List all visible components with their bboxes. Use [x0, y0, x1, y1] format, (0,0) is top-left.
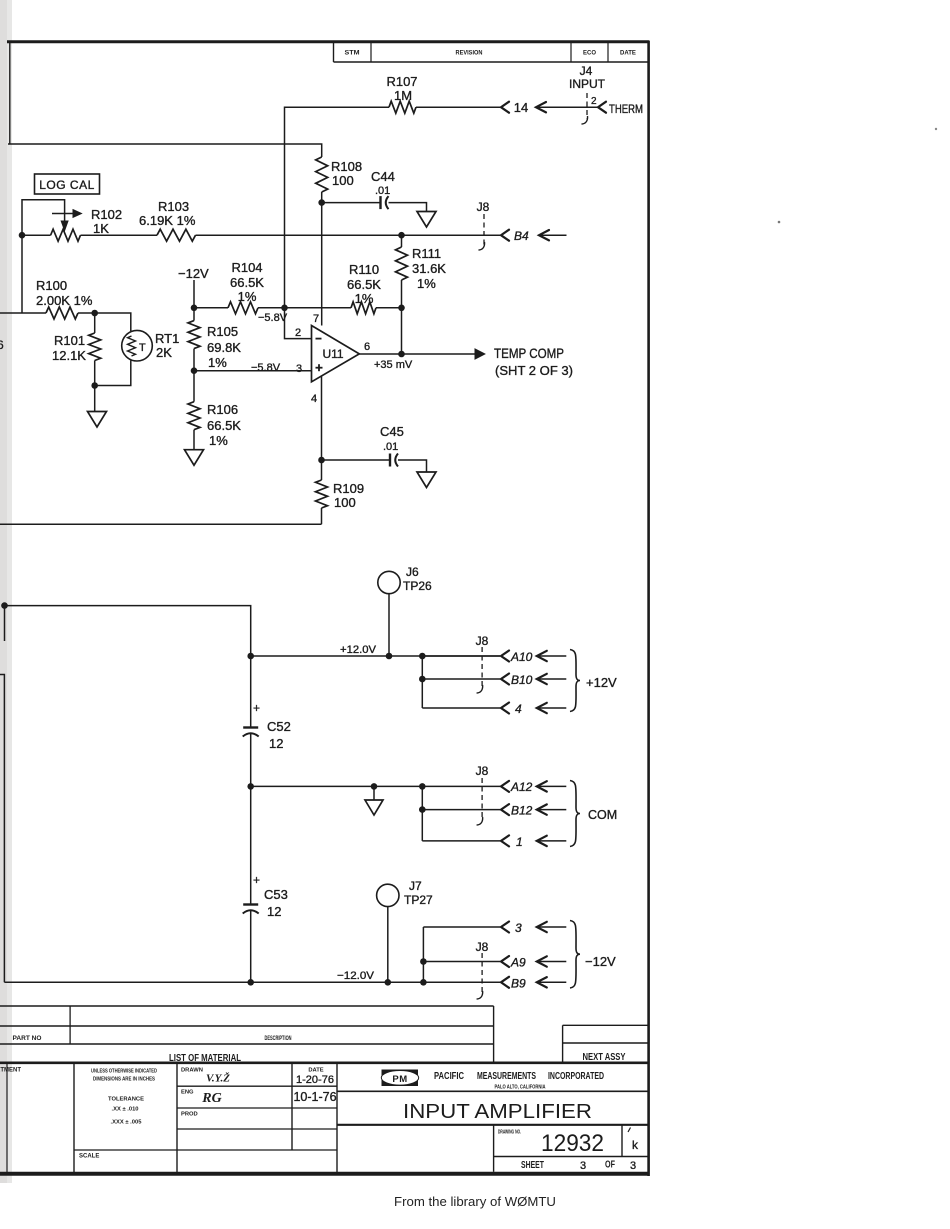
wire node to pin 2	[285, 308, 312, 339]
ground COM	[365, 800, 383, 815]
wire feedback top	[285, 107, 390, 308]
arrow into 14	[536, 106, 598, 108]
node R101 bottom	[91, 382, 98, 389]
wire -12 group vertical	[422, 927, 424, 982]
svg-text:6: 6	[0, 338, 4, 352]
svg-text:R102: R102	[91, 207, 122, 222]
minus sign pin2	[316, 338, 322, 340]
node R108/C44	[318, 199, 325, 206]
svg-text:R105: R105	[207, 324, 238, 339]
svg-text:k: k	[632, 1138, 639, 1152]
pin B10 row	[422, 678, 500, 680]
svg-text:REVISION: REVISION	[456, 51, 483, 57]
ground below R106	[185, 450, 204, 466]
svg-text:TEMP COMP: TEMP COMP	[494, 345, 564, 361]
svg-text:1%: 1%	[208, 355, 227, 370]
svg-text:J8: J8	[477, 200, 490, 214]
node C52 top	[247, 653, 254, 660]
svg-text:(SHT 2 OF 3): (SHT 2 OF 3)	[495, 363, 573, 378]
pin A10 row	[422, 655, 500, 657]
resistor R111	[398, 232, 405, 239]
svg-text:4: 4	[515, 702, 522, 716]
wire R104 to node	[258, 307, 285, 309]
wire C44 to ground	[389, 203, 427, 212]
pin B9 row	[501, 977, 509, 988]
node output	[398, 351, 405, 358]
hook B4	[479, 242, 485, 250]
wire B4 line	[196, 234, 501, 236]
wire R110 to node	[376, 307, 402, 309]
wire bottom rail	[0, 523, 322, 525]
dust specks	[778, 221, 781, 224]
svg-text:INPUT AMPLIFIER: INPUT AMPLIFIER	[403, 1101, 592, 1123]
svg-text:1K: 1K	[93, 221, 109, 236]
wire R110 left	[285, 307, 352, 309]
svg-text:1%: 1%	[209, 433, 228, 448]
resistor R103	[81, 234, 158, 236]
connector J8 dashed line B4	[483, 214, 485, 245]
svg-text:31.6K: 31.6K	[412, 261, 446, 276]
svg-text:7: 7	[313, 313, 319, 325]
svg-text:+: +	[253, 873, 260, 887]
svg-text:.XXX ± .005: .XXX ± .005	[111, 1120, 143, 1126]
svg-text:J8: J8	[476, 940, 489, 954]
svg-text:LOG CAL: LOG CAL	[39, 178, 95, 192]
svg-text:1M: 1M	[394, 88, 412, 103]
svg-text:PROD: PROD	[181, 1112, 198, 1118]
node feedback/pin2	[281, 305, 288, 312]
capacitor C53	[250, 786, 252, 904]
pin A9 row	[423, 961, 500, 963]
svg-text:2K: 2K	[156, 345, 172, 360]
resistor R104	[228, 302, 258, 314]
svg-text:4: 4	[311, 393, 317, 405]
svg-text:−5.8V: −5.8V	[251, 362, 281, 374]
svg-text:J8: J8	[476, 634, 489, 648]
wire node to C44	[322, 202, 380, 204]
svg-text:1-20-76: 1-20-76	[296, 1074, 334, 1086]
pin B4 chevron	[501, 230, 509, 241]
wire left edge stub	[4, 606, 6, 641]
adjust arrow	[52, 213, 74, 215]
revision strip box	[334, 61, 649, 63]
svg-text:1: 1	[516, 835, 523, 849]
wire COM group vertical	[421, 786, 423, 841]
connector J8 dashed -12V group	[481, 953, 483, 994]
capacitor C52	[250, 656, 252, 728]
svg-text:R107: R107	[386, 74, 417, 89]
svg-text:+: +	[253, 701, 260, 715]
resistor R100	[46, 307, 78, 319]
svg-text:C45: C45	[380, 424, 404, 439]
svg-text:A10: A10	[510, 650, 533, 664]
node A10	[419, 653, 426, 660]
pin 3 row	[423, 926, 500, 928]
svg-text:100: 100	[332, 173, 354, 188]
title block frame	[0, 1062, 649, 1065]
wire RT1 bottom	[95, 361, 131, 386]
svg-text:14: 14	[514, 100, 528, 115]
svg-text:J7: J7	[409, 879, 422, 893]
sheet top border	[7, 40, 650, 43]
svg-text:ENG: ENG	[181, 1090, 194, 1096]
wire LOG CAL to wiper	[22, 200, 65, 235]
svg-text:12.1K: 12.1K	[52, 348, 86, 363]
thermistor RT1	[122, 330, 153, 361]
svg-text:+12.0V: +12.0V	[340, 644, 377, 656]
node J7	[385, 979, 392, 986]
svg-text:−12.0V: −12.0V	[337, 970, 375, 982]
connector J8 dashed COM group	[481, 778, 483, 820]
node R105/R106/pin3	[191, 367, 198, 374]
testpoint J7 TP27	[377, 884, 399, 906]
svg-text:6: 6	[364, 341, 370, 353]
svg-text:−12V: −12V	[178, 266, 209, 281]
svg-text:.01: .01	[375, 185, 390, 197]
svg-text:DRAWING NO.: DRAWING NO.	[498, 1130, 521, 1136]
svg-text:RT1: RT1	[155, 331, 179, 346]
wire COM line	[251, 785, 500, 787]
wire +12 feed	[5, 606, 251, 656]
potentiometer R102	[51, 229, 81, 241]
node -12V/R104/R105	[191, 305, 198, 312]
svg-text:T: T	[139, 342, 146, 354]
wire -12.0V line	[4, 981, 500, 983]
svg-text:3: 3	[580, 1160, 586, 1172]
node B9	[420, 979, 427, 986]
svg-text:B9: B9	[511, 976, 526, 990]
wire node to RT1	[95, 313, 131, 331]
ground at C45	[417, 472, 436, 488]
svg-text:TP27: TP27	[404, 893, 433, 907]
svg-text:R101: R101	[54, 333, 85, 348]
svg-text:A12: A12	[510, 780, 533, 794]
svg-text:.01: .01	[383, 441, 398, 453]
svg-text:STM: STM	[345, 51, 360, 57]
svg-text:J8: J8	[476, 764, 489, 778]
arrow into B4	[539, 234, 567, 236]
svg-text:B10: B10	[511, 673, 533, 687]
svg-text:C44: C44	[371, 169, 395, 184]
wire pin7 supply vertical	[321, 203, 323, 326]
output wire	[359, 353, 477, 355]
svg-text:−12V: −12V	[585, 954, 616, 969]
svg-text:+35 mV: +35 mV	[374, 359, 413, 371]
svg-text:1%: 1%	[417, 276, 436, 291]
svg-text:A9: A9	[510, 956, 526, 970]
capacitor C44	[379, 196, 381, 209]
op-amp U11	[312, 326, 360, 382]
wire R108 to node	[321, 192, 323, 203]
svg-text:12: 12	[269, 736, 283, 751]
svg-text:J6: J6	[406, 565, 419, 579]
node B10	[419, 676, 426, 683]
output arrow	[475, 349, 485, 359]
svg-text:R103: R103	[158, 199, 189, 214]
svg-text:69.8K: 69.8K	[207, 340, 241, 355]
svg-text:SCALE: SCALE	[79, 1154, 99, 1160]
svg-text:PALO ALTO, CALIFORNIA: PALO ALTO, CALIFORNIA	[495, 1085, 546, 1091]
brace +12V	[570, 650, 580, 712]
svg-text:R108: R108	[331, 159, 362, 174]
svg-text:COM: COM	[588, 808, 617, 822]
svg-text:RTMENT: RTMENT	[0, 1068, 21, 1074]
resistor R105	[193, 308, 195, 321]
node B12	[419, 806, 426, 813]
wiper arrowhead	[61, 221, 68, 231]
svg-text:R104: R104	[231, 260, 262, 275]
svg-text:R109: R109	[333, 481, 364, 496]
node ground tap	[371, 783, 378, 790]
wire node to R104	[194, 307, 228, 309]
svg-text:12: 12	[267, 904, 281, 919]
svg-text:PM: PM	[392, 1074, 407, 1085]
next assy box	[563, 1024, 649, 1026]
node +12 feed left	[1, 602, 8, 609]
node R110/R111	[398, 305, 405, 312]
sheet left border segment	[9, 42, 11, 144]
node C53 bottom	[247, 979, 254, 986]
svg-text:B12: B12	[511, 804, 533, 818]
svg-text:100: 100	[334, 495, 356, 510]
svg-text:SHEET: SHEET	[521, 1160, 544, 1171]
node J6	[386, 653, 393, 660]
pin 1 row	[422, 840, 500, 842]
ground at C44	[417, 212, 436, 228]
svg-text:R106: R106	[207, 402, 238, 417]
svg-text:C52: C52	[267, 719, 291, 734]
connector J4 hook	[582, 116, 588, 124]
resistor R101	[94, 313, 96, 333]
resistor R107	[389, 101, 416, 113]
testpoint J6 TP26	[378, 571, 400, 593]
resistor R109	[321, 460, 323, 480]
svg-text:J4: J4	[580, 64, 593, 78]
svg-text:DATE: DATE	[620, 51, 636, 57]
svg-text:+12V: +12V	[586, 675, 617, 690]
svg-text:TP26: TP26	[403, 579, 432, 593]
svg-text:PART NO: PART NO	[13, 1035, 42, 1042]
resistor R108	[316, 157, 328, 192]
svg-text:2: 2	[295, 327, 301, 339]
pin A12 row	[501, 781, 509, 792]
svg-text:3: 3	[296, 363, 302, 375]
pin 4 row	[422, 707, 500, 709]
svg-text:2.00K 1%: 2.00K 1%	[36, 293, 93, 308]
svg-text:10-1-76: 10-1-76	[293, 1090, 336, 1104]
svg-text:From the library of WØMTU: From the library of WØMTU	[394, 1194, 556, 1209]
node A12	[419, 783, 426, 790]
svg-text:TOLERANCE: TOLERANCE	[108, 1097, 144, 1103]
wire +12.0V line	[251, 655, 500, 657]
wire pin 3	[194, 370, 312, 372]
svg-text:DIMENSIONS ARE IN INCHES: DIMENSIONS ARE IN INCHES	[93, 1077, 155, 1083]
connector J8 dashed +12V group	[481, 647, 483, 688]
svg-text:6.19K 1%: 6.19K 1%	[139, 213, 196, 228]
wire J6 to +12 line	[388, 594, 390, 656]
svg-text:R110: R110	[349, 262, 379, 277]
pin 14 chevron	[501, 102, 509, 113]
wire C45 to ground	[398, 460, 427, 472]
node A9	[420, 958, 427, 965]
wire ground tap	[373, 786, 375, 800]
wire R107 to pin 14	[416, 106, 500, 108]
brace -12V	[570, 921, 580, 989]
svg-text:R100: R100	[36, 278, 67, 293]
wire to ground R101	[94, 386, 96, 412]
LOG CAL box	[35, 174, 100, 194]
sheet right border	[647, 41, 650, 1176]
svg-text:12932: 12932	[541, 1130, 604, 1157]
svg-text:.XX ± .010: .XX ± .010	[111, 1107, 138, 1113]
node R100/R101	[91, 310, 98, 317]
PM logo	[382, 1070, 419, 1087]
svg-text:R111: R111	[412, 246, 441, 261]
node C52 bottom	[247, 783, 254, 790]
svg-text:B4: B4	[514, 229, 529, 243]
list of material table	[0, 1005, 494, 1007]
svg-text:MEASUREMENTS: MEASUREMENTS	[477, 1071, 536, 1082]
pin THERM chevron	[598, 102, 606, 113]
wire left line	[0, 312, 46, 314]
wire +12 group vertical	[421, 656, 423, 708]
wire R111 node to output	[401, 308, 403, 354]
brace COM	[570, 781, 580, 847]
plus sign pin3	[316, 367, 323, 369]
svg-text:DATE: DATE	[308, 1068, 323, 1074]
svg-text:C53: C53	[264, 887, 288, 902]
resistor R106	[193, 371, 195, 402]
svg-text:V.Y.Ž: V.Y.Ž	[206, 1073, 230, 1085]
svg-text:INPUT: INPUT	[569, 77, 606, 91]
svg-text:1%: 1%	[238, 289, 257, 304]
node pin4/C45	[318, 457, 325, 464]
wire supply rail top	[8, 144, 322, 157]
svg-text:3: 3	[630, 1160, 636, 1172]
wire -12V vertical	[193, 280, 195, 308]
svg-text:DRAWN: DRAWN	[181, 1068, 203, 1074]
connector J4 dashed line	[586, 93, 588, 119]
svg-text:PACIFIC: PACIFIC	[434, 1071, 464, 1082]
svg-text:THERM: THERM	[609, 102, 643, 116]
svg-text:INCORPORATED: INCORPORATED	[548, 1071, 604, 1082]
svg-text:UNLESS OTHERWISE INDICATED: UNLESS OTHERWISE INDICATED	[91, 1069, 157, 1075]
pin B12 row	[422, 809, 500, 811]
wire node down to R100 line	[21, 235, 23, 313]
wire J7 to -12 line	[387, 907, 389, 983]
left cut box	[0, 675, 4, 983]
scan edge band	[0, 0, 12, 1183]
ground below R101	[88, 412, 107, 428]
svg-text:U11: U11	[322, 347, 343, 361]
svg-text:66.5K: 66.5K	[230, 275, 264, 290]
wire R100 to node	[78, 312, 95, 314]
capacitor C45	[389, 454, 391, 467]
node LOG CAL / B4 line	[19, 232, 26, 239]
svg-text:1%: 1%	[355, 291, 374, 306]
svg-text:2: 2	[591, 96, 597, 107]
wire to C45	[322, 459, 390, 461]
svg-text:NEXT ASSY: NEXT ASSY	[583, 1052, 626, 1063]
pin 4 wire	[321, 376, 323, 460]
resistor R110	[351, 302, 376, 314]
svg-text:DESCRIPTION: DESCRIPTION	[265, 1035, 292, 1042]
svg-text:66.5K: 66.5K	[347, 277, 381, 292]
svg-text:ECO: ECO	[583, 51, 596, 57]
svg-text:66.5K: 66.5K	[207, 418, 241, 433]
svg-text:RG: RG	[201, 1091, 221, 1106]
svg-text:3: 3	[515, 921, 522, 935]
svg-text:−5.8V: −5.8V	[258, 312, 288, 324]
svg-text:OF: OF	[605, 1160, 615, 1171]
